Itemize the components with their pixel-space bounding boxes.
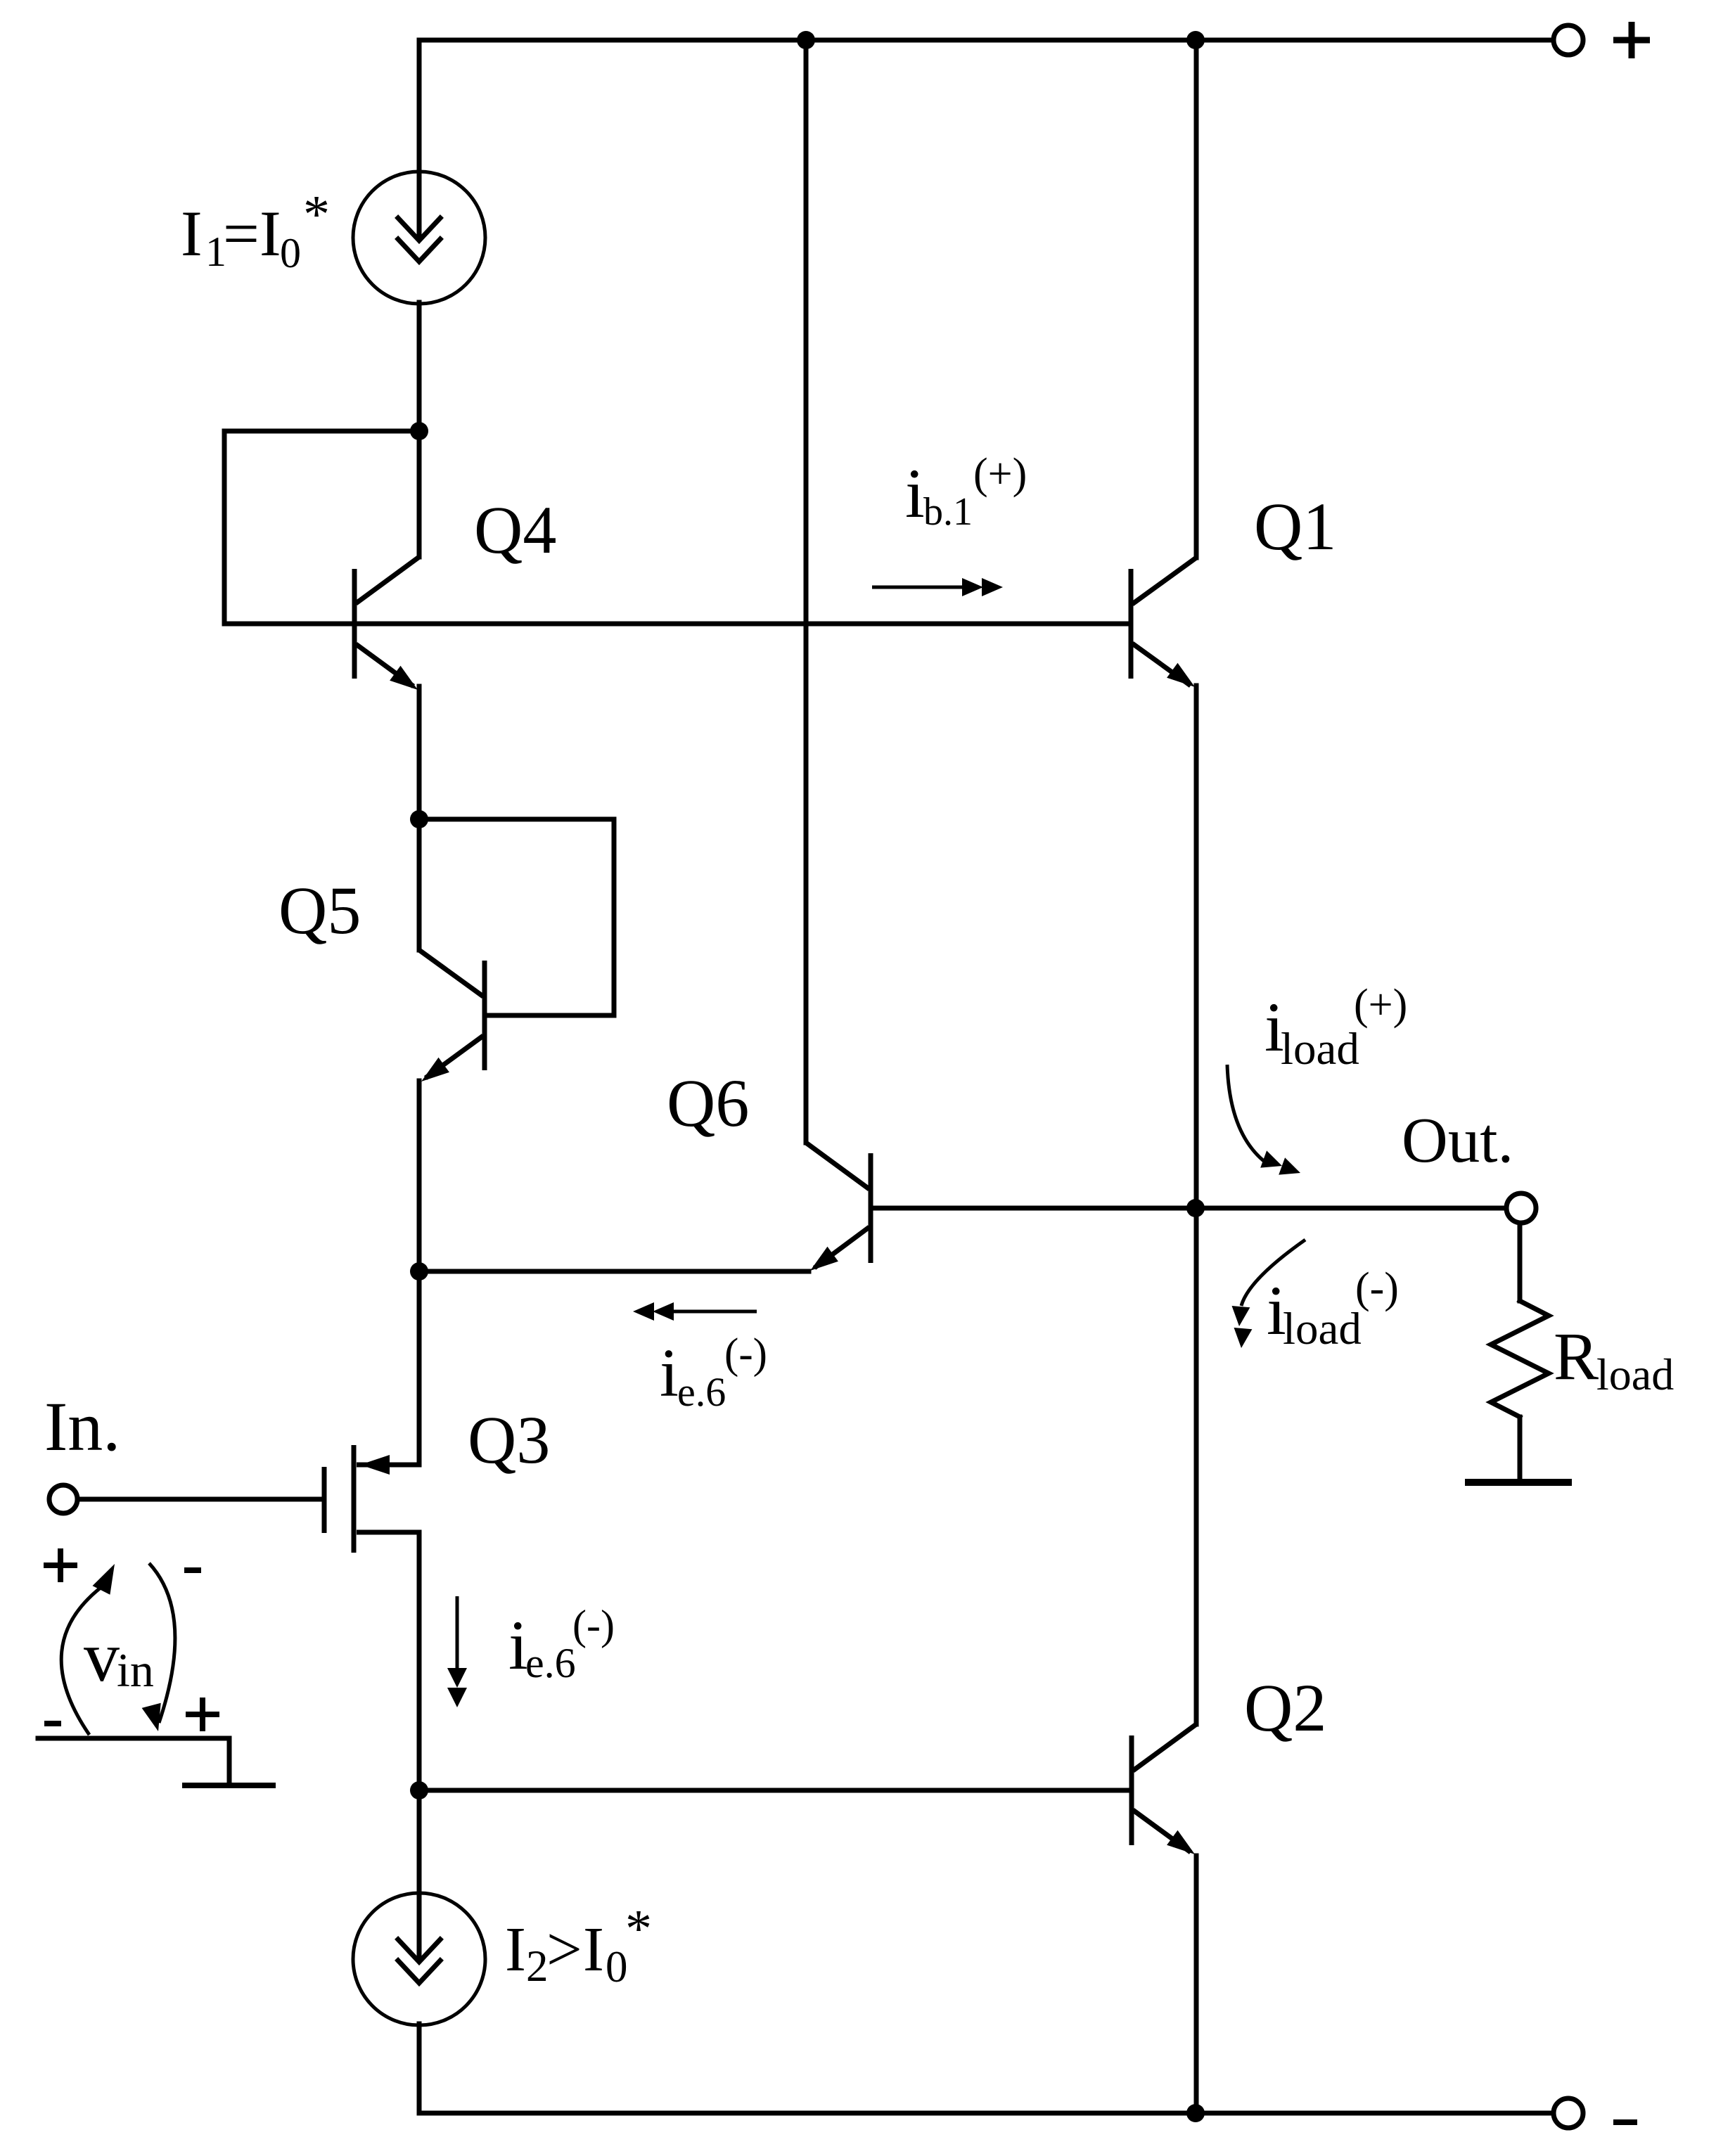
svg-text:I: I	[260, 198, 281, 269]
node Out (Q1 emitter / Q2 collector / Q6 base / load)	[1186, 1199, 1205, 1217]
arrow i_b.1	[872, 578, 1003, 596]
label i_e.6(-) mid	[660, 1330, 767, 1415]
svg-text:=: =	[223, 198, 260, 269]
label - (negative supply)	[1613, 2119, 1637, 2125]
node top rail / Q1 collector	[1186, 31, 1205, 49]
svg-text:b.1: b.1	[923, 490, 973, 534]
ground (load)	[1465, 1479, 1572, 1486]
wire I1 to node A	[417, 302, 422, 431]
label i_b.1(+)	[905, 450, 1027, 534]
svg-text:I: I	[583, 1915, 604, 1984]
source vin (curved polarity arrows)	[61, 1563, 175, 1735]
wire top rail to I1	[417, 40, 422, 173]
current source I2	[353, 1893, 485, 2025]
svg-text:v: v	[84, 1617, 120, 1697]
node top rail / Q6 collector column	[797, 31, 815, 49]
label i_e.6(-) lower	[508, 1602, 615, 1686]
label Rload	[1554, 1318, 1674, 1399]
arrow i_e.6(-) toward Q6 emitter	[633, 1302, 757, 1321]
svg-text:(+): (+)	[1354, 981, 1407, 1029]
svg-text:0: 0	[280, 230, 301, 276]
wire node C to Q6 emitter	[419, 1269, 809, 1274]
wire Q6 base to Out terminal	[873, 1206, 1507, 1211]
svg-text:load: load	[1283, 1304, 1362, 1354]
wire Q2 collector to Out node	[1194, 1208, 1199, 1724]
label + (vin bottom)	[186, 1698, 219, 1731]
resistor Rload	[1491, 1223, 1549, 1482]
svg-text:Q2: Q2	[1244, 1670, 1326, 1745]
terminal Out	[1506, 1193, 1536, 1223]
svg-text:in: in	[117, 1643, 154, 1697]
wire top positive rail	[419, 38, 1553, 43]
svg-text:0: 0	[606, 1942, 628, 1991]
svg-text:Out.: Out.	[1402, 1105, 1513, 1176]
wire node D to I2	[417, 1790, 422, 1894]
label - (vin top)	[184, 1567, 201, 1573]
svg-text:I: I	[181, 198, 203, 269]
label i_load(+)	[1264, 981, 1407, 1074]
svg-text:Q4: Q4	[474, 492, 556, 567]
wire vin bottom step	[38, 1738, 229, 1783]
transistor Q5	[419, 819, 485, 1082]
transistor Q4	[354, 431, 419, 690]
label I1=I0*	[181, 185, 330, 276]
wire node C to Q3 drain	[417, 1271, 422, 1465]
wire Q2 base	[419, 1788, 1129, 1793]
wire Q5 base-collector loop	[419, 819, 614, 1015]
svg-text:(+): (+)	[973, 450, 1027, 498]
svg-text:i: i	[660, 1335, 679, 1411]
arrow i_e.6(-) through Q3	[447, 1596, 467, 1707]
transistor Q2	[1132, 1724, 1196, 1854]
svg-text:load: load	[1281, 1024, 1359, 1074]
terminal In	[49, 1485, 77, 1513]
svg-text:load: load	[1596, 1349, 1674, 1399]
svg-text:>: >	[546, 1915, 582, 1984]
svg-text:In.: In.	[44, 1387, 120, 1465]
terminal - (negative supply)	[1554, 2098, 1583, 2128]
wire Q1 collector to top rail	[1194, 40, 1199, 558]
label i_load(-)	[1267, 1264, 1399, 1354]
svg-text:e.6: e.6	[525, 1640, 576, 1686]
wire In to Q3 gate	[78, 1497, 321, 1502]
wire I2 to bottom rail	[417, 2024, 422, 2113]
svg-text:Q1: Q1	[1254, 489, 1336, 564]
label I2>I0*	[505, 1899, 652, 1991]
svg-text:Q5: Q5	[278, 873, 361, 948]
transistor Q1	[1131, 558, 1196, 687]
svg-text:*: *	[625, 1899, 652, 1958]
svg-text:2: 2	[526, 1942, 549, 1991]
svg-text:*: *	[303, 185, 330, 244]
wire Q2 emitter to bottom rail	[1194, 1856, 1199, 2113]
svg-text:Q3: Q3	[468, 1402, 550, 1477]
svg-text:e.6: e.6	[677, 1369, 726, 1415]
svg-text:i: i	[905, 454, 925, 532]
node B (Q4 emitter / Q5 collector / Q5 base loop)	[410, 810, 428, 828]
wire Q3 source to node D	[417, 1532, 422, 1790]
label + (positive supply)	[1613, 22, 1650, 58]
wire Q1 emitter to Out node	[1194, 686, 1199, 1208]
svg-text:Q6: Q6	[667, 1065, 749, 1141]
node C (Q5 emitter / Q6 emitter / Q3 drain)	[410, 1262, 428, 1281]
ground (vin)	[182, 1783, 276, 1788]
svg-text:R: R	[1554, 1318, 1599, 1394]
wire Q6 collector column	[804, 40, 809, 1143]
wire base bus Q4 to Q1	[357, 622, 1128, 627]
label + (vin top)	[44, 1548, 77, 1582]
label - (vin bottom)	[44, 1721, 61, 1726]
terminal + (positive supply)	[1554, 25, 1583, 55]
wire Q5 emitter to node C	[417, 1081, 422, 1271]
node A (I1 / Q4 collector / Q4 base loop)	[410, 422, 428, 440]
svg-text:(-): (-)	[724, 1330, 767, 1378]
wire bottom negative rail	[419, 2111, 1553, 2116]
label vin	[84, 1617, 154, 1697]
arrow i_load(-)	[1232, 1240, 1306, 1348]
node D (Q3 source / Q2 base / I2)	[410, 1781, 428, 1799]
svg-text:I: I	[505, 1915, 526, 1984]
svg-text:(-): (-)	[1355, 1264, 1399, 1312]
wire Q4 base-collector loop	[224, 431, 419, 624]
svg-text:(-): (-)	[572, 1602, 615, 1648]
arrow i_load(+)	[1227, 1065, 1300, 1175]
node bottom rail / Q2 emitter	[1186, 2104, 1205, 2122]
transistor Q3 (input MOSFET)	[324, 1445, 419, 1553]
transistor Q6	[806, 1143, 871, 1271]
current source I1	[353, 172, 485, 304]
wire Q4 emitter to node B	[417, 686, 422, 819]
